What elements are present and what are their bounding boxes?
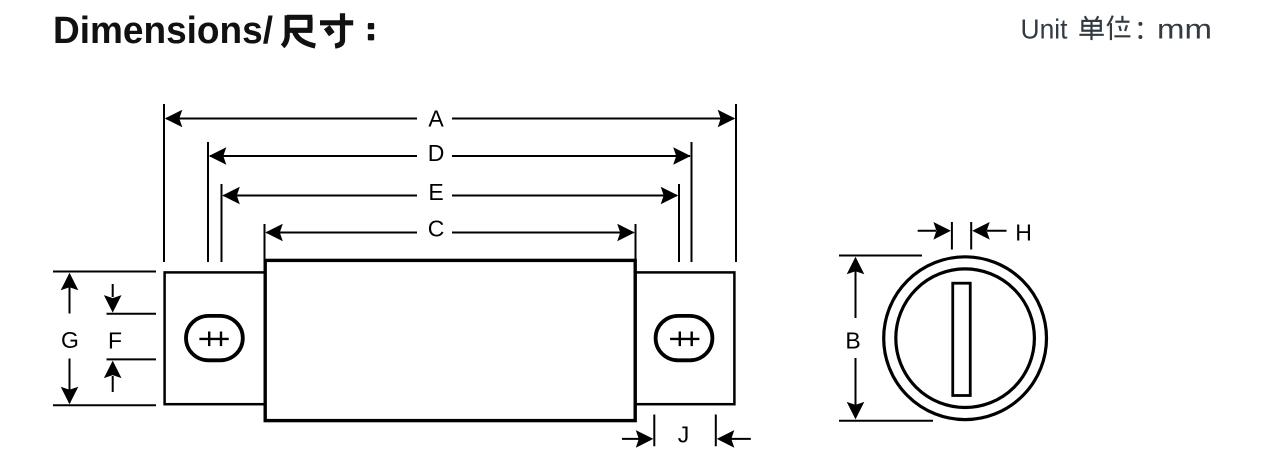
right hole cross marks	[670, 332, 699, 347]
dimension G arrowheads	[61, 273, 79, 405]
mounting view outer circle	[884, 257, 1047, 420]
dimension H lines	[918, 230, 1007, 232]
mounting view inner circle	[896, 269, 1035, 408]
dimension E arrowheads	[222, 187, 678, 205]
right terminal slot hole	[656, 316, 713, 360]
svg-text:G: G	[61, 327, 79, 353]
fuse body	[265, 260, 635, 420]
svg-text:H: H	[1015, 220, 1032, 246]
dimension J arrowheads	[636, 430, 735, 448]
dimension G extension lines	[53, 272, 156, 406]
title CJK 尺	[283, 15, 316, 46]
dimension J extension lines	[654, 415, 716, 447]
dimension A extension lines	[164, 104, 736, 262]
svg-text:Dimensions/: Dimensions/	[53, 10, 273, 52]
left terminal tab	[165, 272, 266, 404]
unit CJK 单	[1079, 16, 1103, 40]
dimension D extension lines	[208, 142, 692, 262]
unit colon	[1138, 22, 1142, 39]
dimension D arrowheads	[209, 147, 691, 165]
svg-text:B: B	[845, 328, 860, 354]
dimension B arrowheads	[847, 257, 865, 420]
dimension J lines	[622, 438, 751, 440]
dimension H extension lines	[952, 222, 971, 250]
dimension C extension lines	[265, 224, 636, 262]
svg-text:D: D	[428, 140, 445, 166]
title CJK 寸	[320, 13, 353, 46]
title colon	[368, 23, 374, 40]
dimension B extension lines	[839, 256, 933, 421]
dimension C line	[267, 232, 634, 234]
dimension F extension lines	[107, 314, 157, 360]
left terminal slot hole	[186, 316, 243, 360]
svg-text:E: E	[428, 179, 443, 205]
dimension B line	[855, 261, 857, 417]
dimension F arrowheads	[104, 295, 122, 378]
svg-text:C: C	[428, 216, 445, 242]
dimension F line	[112, 284, 114, 392]
svg-text:A: A	[428, 106, 444, 132]
svg-text:F: F	[108, 328, 122, 354]
dimension E line	[224, 195, 678, 197]
svg-text:mm: mm	[1157, 13, 1212, 44]
dimension H arrowheads	[933, 222, 989, 240]
dimension E extension lines	[222, 184, 680, 262]
dimension D line	[210, 155, 690, 157]
dimension A line	[166, 118, 734, 120]
right terminal tab	[635, 272, 734, 404]
dimension C arrowheads	[265, 224, 634, 242]
svg-text:J: J	[678, 422, 690, 448]
mounting slot	[953, 283, 971, 395]
left hole cross marks	[199, 332, 228, 347]
unit CJK 位	[1107, 16, 1130, 40]
dimension G line	[69, 275, 71, 403]
dimension A arrowheads	[165, 110, 735, 128]
svg-text:Unit: Unit	[1021, 13, 1068, 44]
